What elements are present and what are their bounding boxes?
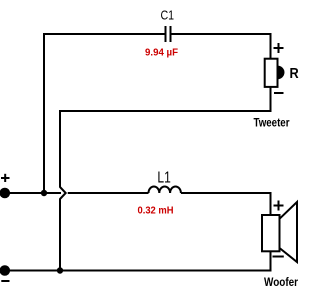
wire bottom horizontal [9,270,272,272]
plus sign at input [1,174,10,182]
wire top horizontal right of C1 [171,33,272,35]
wire tweeter bottom down [270,86,272,111]
woofer body [262,215,280,251]
wire tweeter return horizontal [60,110,272,112]
woofer cone [280,202,298,262]
tweeter dome [278,66,285,80]
tweeter minus sign [274,92,284,94]
tweeter R body [265,59,278,87]
wire main plus horizontal (right of hop to coil) [68,192,149,194]
wire main plus horizontal (left of hop) [9,192,61,194]
wire left vertical from plus input up to top wire [43,33,45,193]
tweeter plus sign [274,43,284,53]
wire woofer bottom down [270,251,272,271]
junction dot at x44 [41,190,47,196]
junction dot at x60 bottom [57,267,63,273]
svg-text:0.32 mH: 0.32 mH [138,206,174,217]
wire tweeter drop from top wire [270,33,272,59]
woofer minus sign [273,256,284,258]
svg-text:C1: C1 [161,8,175,23]
minus input terminal [0,265,10,276]
svg-text:Woofer: Woofer [264,275,298,289]
svg-text:L1: L1 [157,170,170,187]
wire tweeter return vertical below hop [59,199,61,272]
plus input terminal [0,188,10,199]
wire woofer drop [270,192,272,215]
svg-text:Tweeter: Tweeter [254,116,290,130]
inductor L1 [149,187,181,194]
minus sign at input [1,280,9,282]
svg-text:R: R [290,66,300,82]
svg-text:9.94 µF: 9.94 µF [145,48,178,59]
capacitor C1 [166,26,171,42]
wire top horizontal left of C1 [43,33,166,35]
wire hop chevron [60,187,66,199]
wire main plus horizontal (coil to woofer) [181,192,272,194]
woofer plus sign [274,201,284,211]
wire tweeter return vertical down to hop [59,110,61,188]
